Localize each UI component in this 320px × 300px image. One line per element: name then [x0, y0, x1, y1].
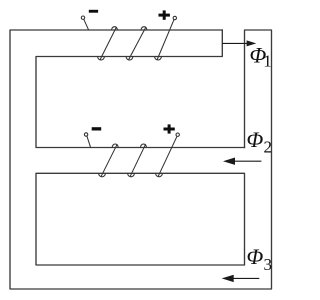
svg-text:Φ: Φ [247, 127, 264, 152]
svg-text:Φ: Φ [247, 244, 264, 269]
svg-text:3: 3 [264, 255, 273, 274]
svg-text:2: 2 [264, 137, 273, 156]
svg-text:1: 1 [263, 52, 272, 71]
